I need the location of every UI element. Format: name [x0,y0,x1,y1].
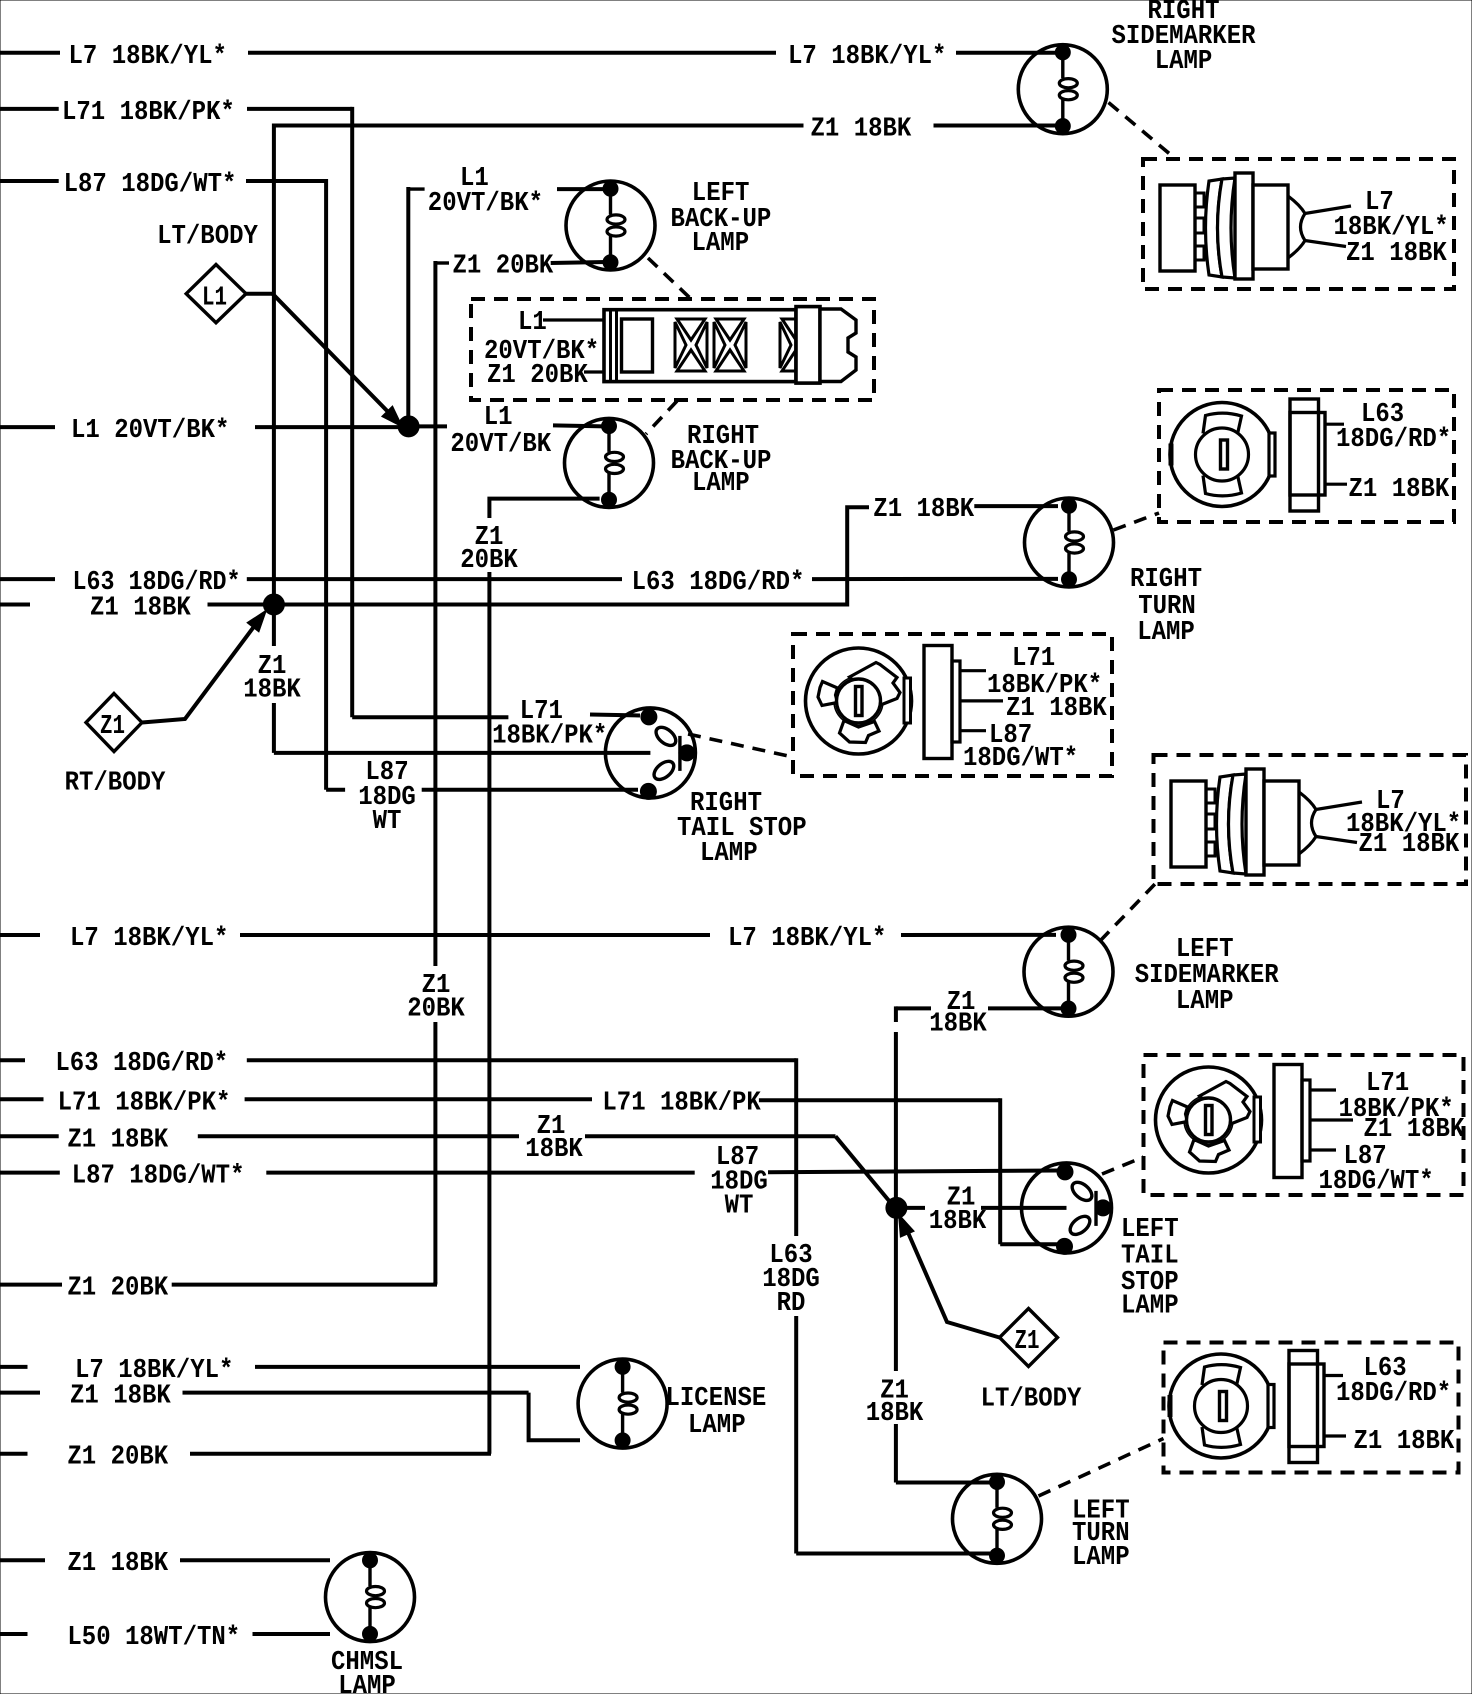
svg-text:18DG/WT*: 18DG/WT* [963,744,1078,774]
wire L7 18BK/YL* into right sidemarker lamp [956,51,1056,55]
wire L50 stub [0,1632,28,1636]
pin leader Z1 20BK (box B) [584,370,604,373]
wire L87 to label [326,788,345,792]
wire L87 stub (lower) [0,1171,60,1175]
wire Z1 20BK corner [433,1282,437,1285]
wire Z1 18BK horizontal right [284,603,847,607]
svg-text:18BK: 18BK [929,1207,987,1237]
svg-text:20BK: 20BK [460,546,518,576]
wire Z1 into right tail lamp center [274,751,651,755]
lamp left turn [953,1474,1042,1563]
svg-text:L1 20VT/BK*: L1 20VT/BK* [71,416,229,446]
svg-text:L7 18BK/YL*: L7 18BK/YL* [728,924,886,954]
svg-text:L1: L1 [484,403,513,433]
connector box left tail stop [1144,1055,1464,1195]
pin leader L87 (box D) [961,729,986,732]
socket left turn connector [1169,1351,1324,1463]
wire Z1 into chmsl lamp [180,1558,330,1562]
arrowhead to Z1 junction [247,610,266,632]
leader right turn to connector [1114,513,1160,530]
leader connector to right backup [646,401,677,434]
wire Z1 20BK riser 2 vertical [487,572,491,1454]
wire from L1 junction [417,424,447,428]
svg-text:LAMP: LAMP [1121,1292,1179,1322]
socket left sidemarker connector [1171,769,1362,875]
wire Z1 18BK into right sidemarker lamp [934,124,1057,128]
svg-text:Z1 18BK: Z1 18BK [67,1125,169,1155]
wire Z1 18BK vertical riser upper [272,124,276,647]
wire Z1 stub (chmsl) [0,1558,45,1562]
svg-text:Z1 18BK: Z1 18BK [1346,239,1448,269]
wire L7 stub (bottom) [0,1365,28,1369]
wire Z1 18BK to junction [208,603,265,607]
wire into left backup lamp top [557,187,604,191]
wire L63 into right turn lamp bottom [812,577,1058,581]
svg-text:Z1 18BK: Z1 18BK [1359,830,1461,860]
wire Z1 20BK long vertical upper [433,261,437,966]
svg-text:Z1 18BK: Z1 18BK [1354,1427,1456,1457]
wire Z1 18BK left stub [0,603,30,607]
svg-text:L63 18DG/RD*: L63 18DG/RD* [632,568,805,598]
svg-text:WT: WT [725,1192,754,1222]
wire right backup lamp to Z1 20BK riser [489,499,599,518]
pin leader L1 (box B) [543,318,604,321]
pin leader L63 (box G) [1324,1374,1343,1377]
svg-text:L7 18BK/YL*: L7 18BK/YL* [69,42,227,72]
wire L1 diagonal [273,294,397,421]
wire L63 horizontal (lower) [247,1058,796,1062]
wire Z1 horizontal (lower a) [198,1134,519,1138]
svg-text:LAMP: LAMP [692,469,750,499]
wire L7 18BK/YL* horizontal (mid) [240,933,710,937]
svg-text:L1: L1 [202,284,227,314]
wire into right backup lamp top [553,425,604,426]
pin leader L87 (box F) [1311,1148,1336,1151]
svg-text:L87 18DG/WT*: L87 18DG/WT* [72,1162,245,1192]
wire Z1 from left sidemarker lamp [988,1006,1062,1010]
wire L1 20VT/BK* left stub [0,425,55,429]
connector symbol Z1 (LT/BODY diamond bottom) [1000,1309,1058,1367]
wire Z1 drop to license lamp bottom [529,1393,580,1441]
lamp left tail stop [1022,1163,1112,1255]
wire L63 stub (lower) [0,1058,25,1062]
wire Z1 into left tail lamp center [981,1206,1067,1210]
svg-text:Z1 20BK: Z1 20BK [67,1443,169,1473]
lamp left backup [566,181,655,270]
svg-text:LT/BODY: LT/BODY [981,1385,1083,1415]
svg-text:20VT/BK: 20VT/BK [450,430,552,460]
wire into left backup lamp bottom [551,262,606,263]
svg-text:18BK: 18BK [525,1135,583,1165]
wire Z1 20BK stub (bottom) [0,1452,28,1456]
leader right sidemarker to connector [1109,103,1172,156]
svg-text:LICENSE: LICENSE [666,1384,767,1414]
svg-text:L71 18BK/PK: L71 18BK/PK [602,1088,761,1118]
connector box left sidemarker [1154,755,1467,884]
wire Z1 stub (license) [0,1391,40,1395]
svg-text:Z1 18BK: Z1 18BK [873,495,975,525]
wire Z1 horizontal (license) [183,1391,529,1395]
wire Z1 stub (lower) [0,1134,59,1138]
svg-text:L50 18WT/TN*: L50 18WT/TN* [67,1623,240,1653]
wire L7 into license lamp [255,1365,580,1369]
wire L63 into left turn lamp bottom [796,1552,990,1556]
svg-text:18DG/RD*: 18DG/RD* [1336,1379,1451,1409]
wire L7 18BK/YL* to right [248,51,776,55]
lamp license [578,1359,667,1448]
bracket L1 label [408,187,424,190]
lamp right backup [565,418,654,507]
svg-text:RIGHT: RIGHT [1130,565,1202,595]
bracket Z1 20BK label [435,261,449,264]
wire L71 vertical drop [998,1098,1002,1244]
wire Z1 18BK vertical riser lower [272,703,276,753]
wire Z1 20BK stub [0,1283,62,1287]
wire L63 vertical upper [794,1058,798,1236]
svg-text:Z1 20BK: Z1 20BK [453,252,555,282]
wire from L1 diamond [246,292,273,296]
wire Z1 to corner (left sidemarker) [896,1006,931,1010]
arrowhead to L1 junction [382,406,403,427]
lamp chmsl [326,1553,415,1642]
wire L71 vertical riser [350,107,354,717]
wire Z1 diagonal to junction [836,1136,891,1202]
wire Z1 18BK riser to label [847,507,869,606]
junction Z1 [263,594,284,615]
wire Z1 20BK long vertical lower [433,1022,437,1283]
wire L7 18BK/YL* stub (mid) [0,933,40,937]
svg-text:18BK: 18BK [929,1010,987,1040]
svg-text:LAMP: LAMP [338,1672,396,1694]
svg-text:Z1 18BK: Z1 18BK [1364,1115,1466,1145]
wire from left junction [906,1206,925,1210]
pin leader Z1 (box C) [1325,483,1347,486]
wire L87 18DG/WT* left stub [0,179,59,183]
svg-text:L71 18BK/PK*: L71 18BK/PK* [62,98,235,128]
lamp left sidemarker [1024,927,1113,1016]
wire L71 stub (lower) [0,1097,44,1101]
wire L71 18BK/PK* horizontal [247,107,352,111]
svg-text:WT: WT [373,807,402,837]
pin leader Z1 (box D) [961,699,1003,702]
wire L1 20VT/BK* horizontal [255,425,398,429]
wire L71 to corner [759,1098,1000,1102]
svg-text:LAMP: LAMP [700,839,758,869]
svg-text:RT/BODY: RT/BODY [65,769,167,799]
wire Z1 18BK horizontal [274,124,804,128]
svg-text:L71 18BK/PK*: L71 18BK/PK* [58,1088,231,1118]
wire L71 horizontal (lower) [245,1097,592,1101]
svg-text:L87 18DG/WT*: L87 18DG/WT* [64,170,237,200]
junction L1 [398,416,419,437]
wire L7 18BK/YL* left stub [0,51,60,55]
wire L71 horizontal to label [352,715,508,719]
connector box right sidemarker [1143,159,1454,289]
svg-text:Z1 18BK: Z1 18BK [1006,694,1108,724]
wire L71 into left tail lamp bottom [1000,1242,1062,1246]
svg-text:Z1: Z1 [1015,1327,1040,1357]
connector symbol Z1 (RT/BODY diamond) [86,694,142,752]
svg-text:Z1 18BK: Z1 18BK [70,1382,172,1412]
wire L7 into left sidemarker lamp [901,933,1056,937]
svg-text:18BK/PK*: 18BK/PK* [492,722,607,752]
connector box right tail stop [793,634,1112,776]
wire L87 horizontal (lower) [266,1171,694,1175]
svg-text:RD: RD [777,1289,806,1319]
wire Z1 to LT/BODY diamond [903,1221,1000,1338]
lamp right sidemarker [1018,45,1107,134]
svg-text:Z1 18BK: Z1 18BK [90,594,192,624]
leader left sidemarker to connector [1100,884,1155,941]
svg-text:L1: L1 [518,308,547,338]
lamp right tail stop [605,708,695,800]
svg-text:LT/BODY: LT/BODY [157,222,259,252]
svg-text:LAMP: LAMP [1176,987,1234,1017]
wire Z1 horizontal (lower b) [585,1134,836,1138]
pin leader L63 (box C) [1325,423,1344,426]
socket backup connector [604,307,856,384]
connector box left turn [1164,1343,1459,1473]
svg-text:Z1 20BK: Z1 20BK [67,1274,169,1304]
socket right sidemarker connector [1160,173,1351,279]
wire from Z1 diamond [142,617,262,723]
svg-text:LAMP: LAMP [1155,47,1213,77]
wire L71 into right tail lamp [590,715,640,716]
svg-text:L7 18BK/YL*: L7 18BK/YL* [70,924,228,954]
svg-text:LAMP: LAMP [692,229,750,259]
svg-text:Z1 18BK: Z1 18BK [1349,475,1451,505]
svg-text:LAMP: LAMP [1137,618,1195,648]
wire L71 18BK/PK* left stub [0,107,59,111]
wire Z1 vertical (left turn) [894,1424,898,1483]
leader left turn to connector [1039,1439,1164,1497]
svg-text:20BK: 20BK [407,995,465,1025]
wire L63 vertical lower [794,1316,798,1554]
pin leader Z1 (box F) [1311,1118,1353,1121]
socket right turn connector [1170,399,1325,511]
svg-text:L7 18BK/YL*: L7 18BK/YL* [788,42,946,72]
wire L87 18DG/WT* horizontal [246,179,326,183]
svg-text:TAIL: TAIL [1121,1242,1179,1272]
pin leader Z1 (box G) [1324,1434,1346,1437]
wire L63 18DG/RD* left stub [0,577,55,581]
svg-text:LAMP: LAMP [1072,1543,1130,1573]
svg-text:Z1 20BK: Z1 20BK [487,361,589,391]
svg-text:LEFT: LEFT [1121,1215,1179,1245]
wire Z1 into left turn lamp top [896,1481,990,1485]
arrowhead to left junction [899,1214,915,1237]
pin leader L71 (box F) [1311,1088,1336,1091]
wire L87 into left tail lamp top [768,1171,1058,1173]
connector box right turn [1159,390,1454,522]
socket right tail connector [806,646,961,759]
wire Z1 into right turn lamp top [974,504,1058,508]
junction Z1 (left) [886,1197,907,1218]
wire Z1 20BK to riser 2 [190,1452,491,1456]
svg-text:18DG/WT*: 18DG/WT* [1319,1167,1434,1197]
wire L63 18DG/RD* horizontal [247,577,622,581]
svg-text:Z1 18BK: Z1 18BK [67,1549,169,1579]
svg-text:L63 18DG/RD*: L63 18DG/RD* [55,1049,228,1079]
wire L1 20VT/BK vertical [406,187,410,427]
wire Z1 18BK vertical (left) [894,1032,898,1371]
lamp right turn [1025,498,1114,587]
wire L87 into right tail lamp bottom [422,788,638,792]
wire L87 vertical riser [324,179,328,790]
socket left tail connector [1156,1065,1311,1178]
leader left tail to connector [1102,1157,1144,1174]
leader right tail to connector [688,734,793,757]
wire L50 into chmsl lamp [253,1632,331,1636]
svg-text:LAMP: LAMP [688,1411,746,1441]
connector symbol L1 (LT/BODY diamond) [186,265,246,323]
svg-text:L71: L71 [1012,644,1055,674]
leader left backup to connector [648,258,690,298]
svg-text:18DG/RD*: 18DG/RD* [1336,425,1451,455]
svg-text:20VT/BK*: 20VT/BK* [428,189,543,219]
svg-text:18BK: 18BK [243,676,301,706]
svg-text:Z1: Z1 [100,712,125,742]
pin leader L71 (box D) [961,669,986,672]
wire Z1 20BK horizontal [172,1283,437,1287]
wire Z1 corner down [894,1006,898,1022]
svg-text:Z1 18BK: Z1 18BK [811,115,913,145]
connector box backup lamps [471,299,874,400]
